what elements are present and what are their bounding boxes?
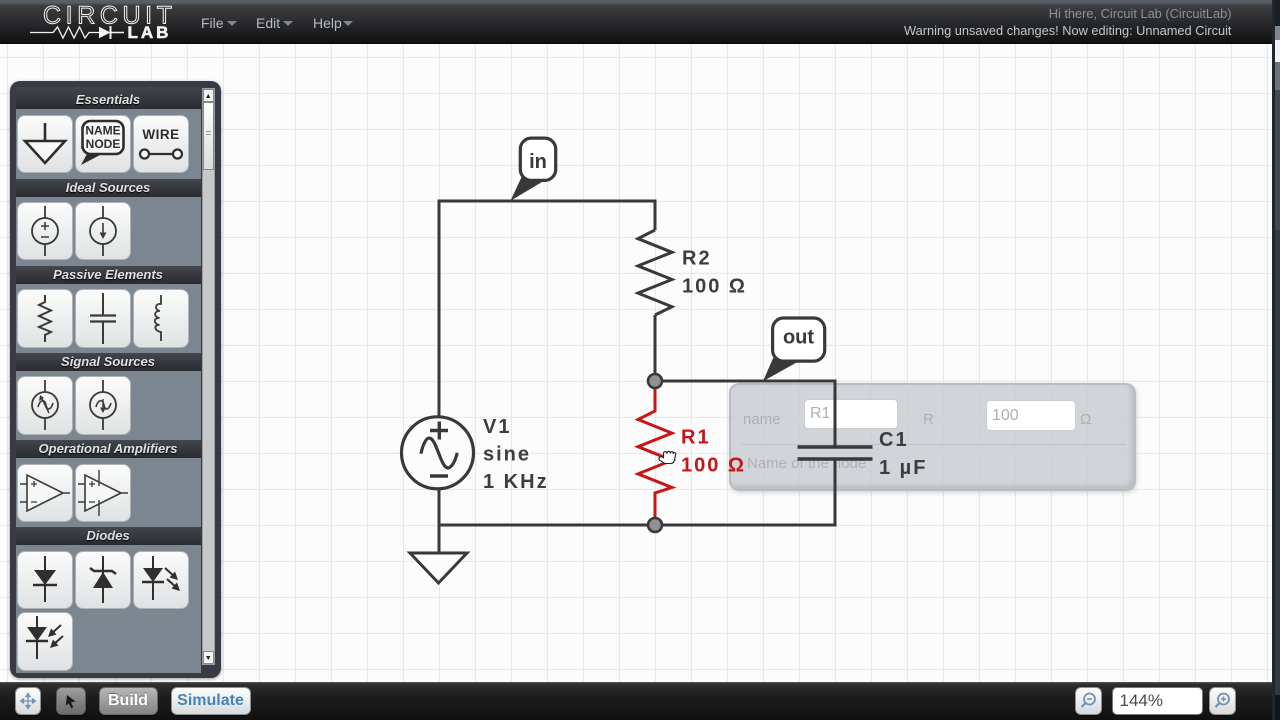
bottom toolbar (0, 682, 1272, 720)
dialog overlay (component edit popup) (729, 383, 1136, 491)
wire in top (439, 201, 655, 525)
zoom out button (1075, 687, 1102, 715)
zoom percent field (1112, 687, 1203, 715)
zener diode button (75, 551, 131, 610)
menu File (201, 15, 224, 31)
wire mid out (655, 381, 835, 447)
Build button (99, 687, 158, 715)
menu Help (313, 15, 342, 31)
header Operational Amplifiers (16, 440, 201, 458)
header Essentials (16, 87, 201, 109)
capacitor button (75, 289, 131, 348)
input name R1 (804, 399, 898, 429)
voltage source V1 sine symbol (421, 438, 457, 468)
V1 minus (430, 474, 448, 477)
faint label ohm (1080, 411, 1091, 428)
right edge strip (1272, 0, 1280, 720)
voltage source V1 circle (402, 417, 474, 489)
ground button (17, 115, 73, 174)
V1 plus (430, 422, 448, 440)
node junction top (648, 374, 662, 388)
svg-text:WIRE: WIRE (142, 127, 179, 142)
cursor tool button (56, 687, 86, 715)
palette scrollbar (202, 88, 215, 665)
sine current source button (75, 376, 131, 435)
ground (410, 525, 467, 583)
component palette (10, 81, 221, 678)
faint label R (923, 411, 934, 428)
resistor R2 (638, 230, 672, 315)
menu Edit (256, 15, 280, 31)
node in balloon (511, 138, 556, 201)
inductor button (133, 289, 189, 348)
svg-text:NODE: NODE (85, 137, 120, 151)
faint help text Name of the node (747, 455, 866, 472)
led button (133, 551, 189, 610)
zoom in button (1209, 687, 1236, 715)
input value 100 (986, 400, 1076, 431)
op-amp button (17, 464, 73, 523)
photodiode button (17, 612, 73, 671)
faint label name (743, 411, 781, 428)
logo resistor+diode line (30, 27, 99, 38)
op-amp with power button (75, 464, 131, 523)
resistor R1 red (638, 381, 672, 525)
ideal voltage source button (17, 202, 73, 261)
ideal current source button (75, 202, 131, 261)
resistor button (17, 289, 73, 348)
faint divider (741, 444, 1126, 445)
header Ideal Sources (16, 179, 201, 197)
logo (0, 0, 200, 44)
diode button (17, 551, 73, 610)
top bar (0, 0, 1272, 44)
capacitor C1 plates (798, 447, 873, 459)
node out balloon (763, 318, 825, 381)
hand cursor (659, 451, 676, 463)
header Diodes (16, 527, 201, 545)
node junction bottom (648, 518, 662, 532)
wire bottom (439, 459, 835, 525)
header Signal Sources (16, 353, 201, 371)
move tool button (15, 687, 41, 715)
svg-text:NAME: NAME (85, 123, 120, 137)
sine voltage source button (17, 376, 73, 435)
Simulate button (171, 687, 251, 715)
wire R2 bottom lead (654, 315, 657, 381)
header Passive Elements (16, 266, 201, 284)
svg-text:LAB: LAB (128, 23, 172, 42)
wire button (133, 115, 189, 174)
name node button (75, 115, 131, 174)
